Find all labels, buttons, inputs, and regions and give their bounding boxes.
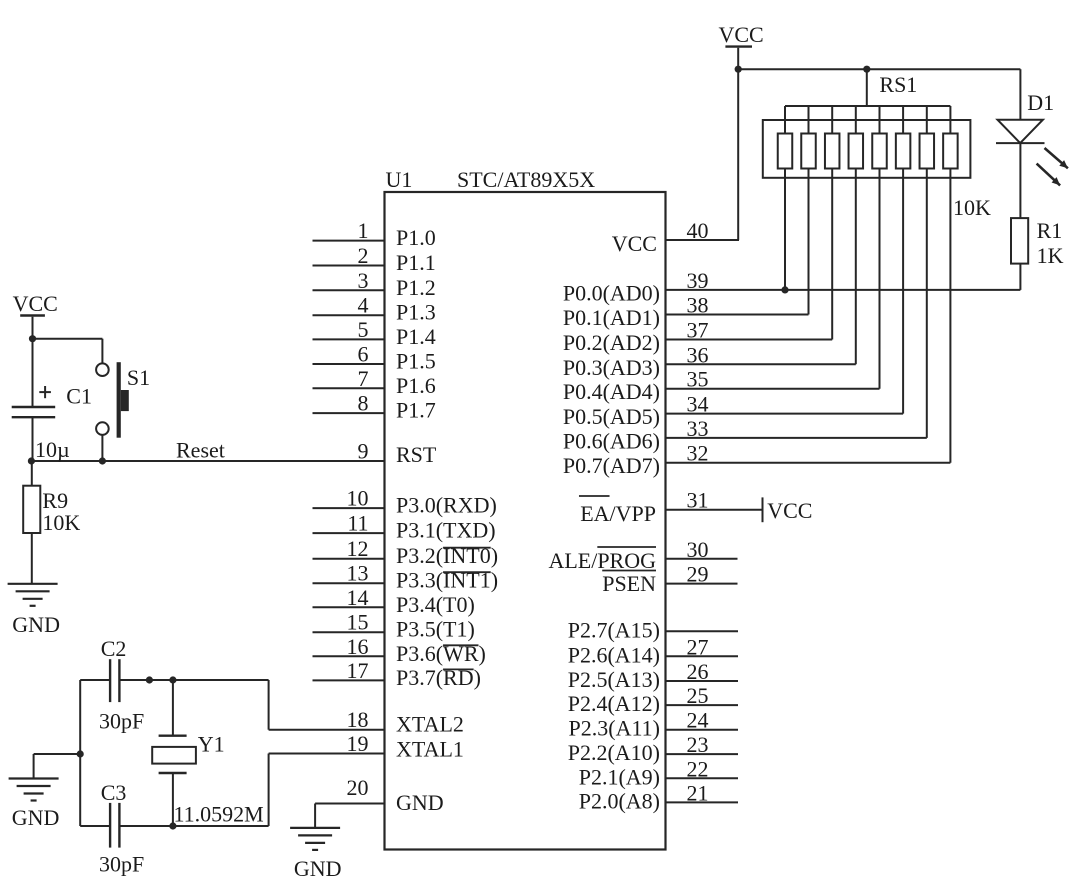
svg-text:GND: GND	[12, 612, 60, 637]
svg-text:39: 39	[687, 268, 709, 293]
svg-text:P3.1(TXD): P3.1(TXD)	[396, 518, 496, 543]
svg-text:RST: RST	[396, 442, 437, 467]
svg-text:2: 2	[358, 243, 369, 268]
svg-text:P2.2(A10): P2.2(A10)	[568, 740, 660, 765]
svg-text:8: 8	[358, 391, 369, 416]
svg-text:C3: C3	[101, 780, 127, 805]
svg-text:33: 33	[687, 416, 709, 441]
svg-text:10K: 10K	[42, 510, 80, 535]
svg-text:P1.2: P1.2	[396, 275, 436, 300]
svg-text:37: 37	[687, 318, 709, 343]
svg-text:4: 4	[358, 293, 369, 318]
svg-text:P2.0(A8): P2.0(A8)	[579, 788, 660, 813]
svg-text:11: 11	[347, 511, 368, 536]
svg-text:P3.5(T1): P3.5(T1)	[396, 617, 475, 642]
svg-text:U1: U1	[386, 167, 413, 192]
svg-text:5: 5	[358, 317, 369, 342]
svg-text:R1: R1	[1037, 218, 1063, 243]
svg-text:13: 13	[347, 561, 369, 586]
svg-text:PSEN: PSEN	[602, 571, 656, 596]
svg-text:ALE/PROG: ALE/PROG	[548, 548, 656, 573]
svg-text:P2.4(A12): P2.4(A12)	[568, 691, 660, 716]
svg-text:P0.1(AD1): P0.1(AD1)	[563, 305, 660, 330]
svg-text:VCC: VCC	[719, 22, 764, 47]
svg-text:VCC: VCC	[767, 498, 812, 523]
svg-text:1K: 1K	[1037, 243, 1064, 268]
svg-text:P2.7(A15): P2.7(A15)	[568, 617, 660, 642]
svg-text:STC/AT89X5X: STC/AT89X5X	[457, 167, 595, 192]
svg-text:P1.5: P1.5	[396, 349, 436, 374]
svg-text:P3.4(T0): P3.4(T0)	[396, 592, 475, 617]
svg-text:D1: D1	[1027, 90, 1054, 115]
svg-text:35: 35	[687, 367, 709, 392]
svg-text:S1: S1	[127, 365, 150, 390]
svg-text:P2.6(A14): P2.6(A14)	[568, 642, 660, 667]
svg-text:RS1: RS1	[879, 72, 917, 97]
svg-text:30pF: 30pF	[99, 709, 144, 734]
svg-text:P0.0(AD0): P0.0(AD0)	[563, 280, 660, 305]
svg-text:10µ: 10µ	[35, 437, 70, 462]
svg-text:38: 38	[687, 293, 709, 318]
svg-text:XTAL2: XTAL2	[396, 712, 464, 737]
svg-text:VCC: VCC	[13, 291, 58, 316]
svg-text:P1.6: P1.6	[396, 373, 436, 398]
svg-text:P0.5(AD5): P0.5(AD5)	[563, 404, 660, 429]
svg-text:34: 34	[687, 392, 709, 417]
svg-text:9: 9	[358, 439, 369, 464]
svg-text:P0.4(AD4): P0.4(AD4)	[563, 379, 660, 404]
svg-text:32: 32	[687, 441, 709, 466]
svg-text:21: 21	[687, 780, 709, 805]
svg-text:24: 24	[687, 708, 709, 733]
svg-text:P1.3: P1.3	[396, 300, 436, 325]
svg-text:31: 31	[687, 488, 709, 513]
svg-text:P0.7(AD7): P0.7(AD7)	[563, 453, 660, 478]
svg-text:23: 23	[687, 732, 709, 757]
svg-text:40: 40	[687, 218, 709, 243]
svg-text:P1.0: P1.0	[396, 225, 436, 250]
svg-text:P1.1: P1.1	[396, 250, 436, 275]
svg-text:18: 18	[347, 707, 369, 732]
svg-text:P3.0(RXD): P3.0(RXD)	[396, 493, 497, 518]
svg-text:30: 30	[687, 537, 709, 562]
svg-text:10: 10	[347, 486, 369, 511]
svg-text:P0.6(AD6): P0.6(AD6)	[563, 428, 660, 453]
svg-text:17: 17	[347, 658, 369, 683]
svg-text:30pF: 30pF	[99, 852, 144, 877]
svg-text:7: 7	[358, 366, 369, 391]
svg-text:25: 25	[687, 683, 709, 708]
svg-text:P2.1(A9): P2.1(A9)	[579, 764, 660, 789]
svg-text:P0.2(AD2): P0.2(AD2)	[563, 330, 660, 355]
svg-text:6: 6	[358, 342, 369, 367]
svg-text:GND: GND	[396, 790, 444, 815]
svg-text:GND: GND	[294, 856, 342, 881]
svg-text:P2.5(A13): P2.5(A13)	[568, 667, 660, 692]
svg-text:12: 12	[347, 536, 369, 561]
svg-text:XTAL1: XTAL1	[396, 737, 464, 762]
svg-text:36: 36	[687, 342, 709, 367]
svg-text:20: 20	[347, 775, 369, 800]
svg-text:P0.3(AD3): P0.3(AD3)	[563, 355, 660, 380]
svg-text:29: 29	[687, 562, 709, 587]
svg-text:22: 22	[687, 756, 709, 781]
svg-text:19: 19	[347, 731, 369, 756]
svg-text:26: 26	[687, 659, 709, 684]
svg-text:P1.7: P1.7	[396, 398, 436, 423]
svg-text:VCC: VCC	[612, 231, 657, 256]
svg-text:3: 3	[358, 268, 369, 293]
svg-text:Reset: Reset	[176, 438, 225, 463]
svg-text:11.0592M: 11.0592M	[174, 802, 264, 827]
svg-text:C2: C2	[101, 636, 127, 661]
svg-text:15: 15	[347, 610, 369, 635]
svg-text:Y1: Y1	[198, 732, 225, 757]
svg-text:EA/VPP: EA/VPP	[580, 501, 656, 526]
svg-text:P1.4: P1.4	[396, 324, 436, 349]
svg-text:10K: 10K	[953, 195, 991, 220]
svg-text:14: 14	[347, 585, 369, 610]
svg-text:GND: GND	[12, 805, 60, 830]
svg-text:P2.3(A11): P2.3(A11)	[569, 716, 660, 741]
svg-text:16: 16	[347, 634, 369, 659]
svg-text:C1: C1	[66, 384, 92, 409]
svg-text:27: 27	[687, 634, 709, 659]
svg-text:1: 1	[358, 218, 369, 243]
